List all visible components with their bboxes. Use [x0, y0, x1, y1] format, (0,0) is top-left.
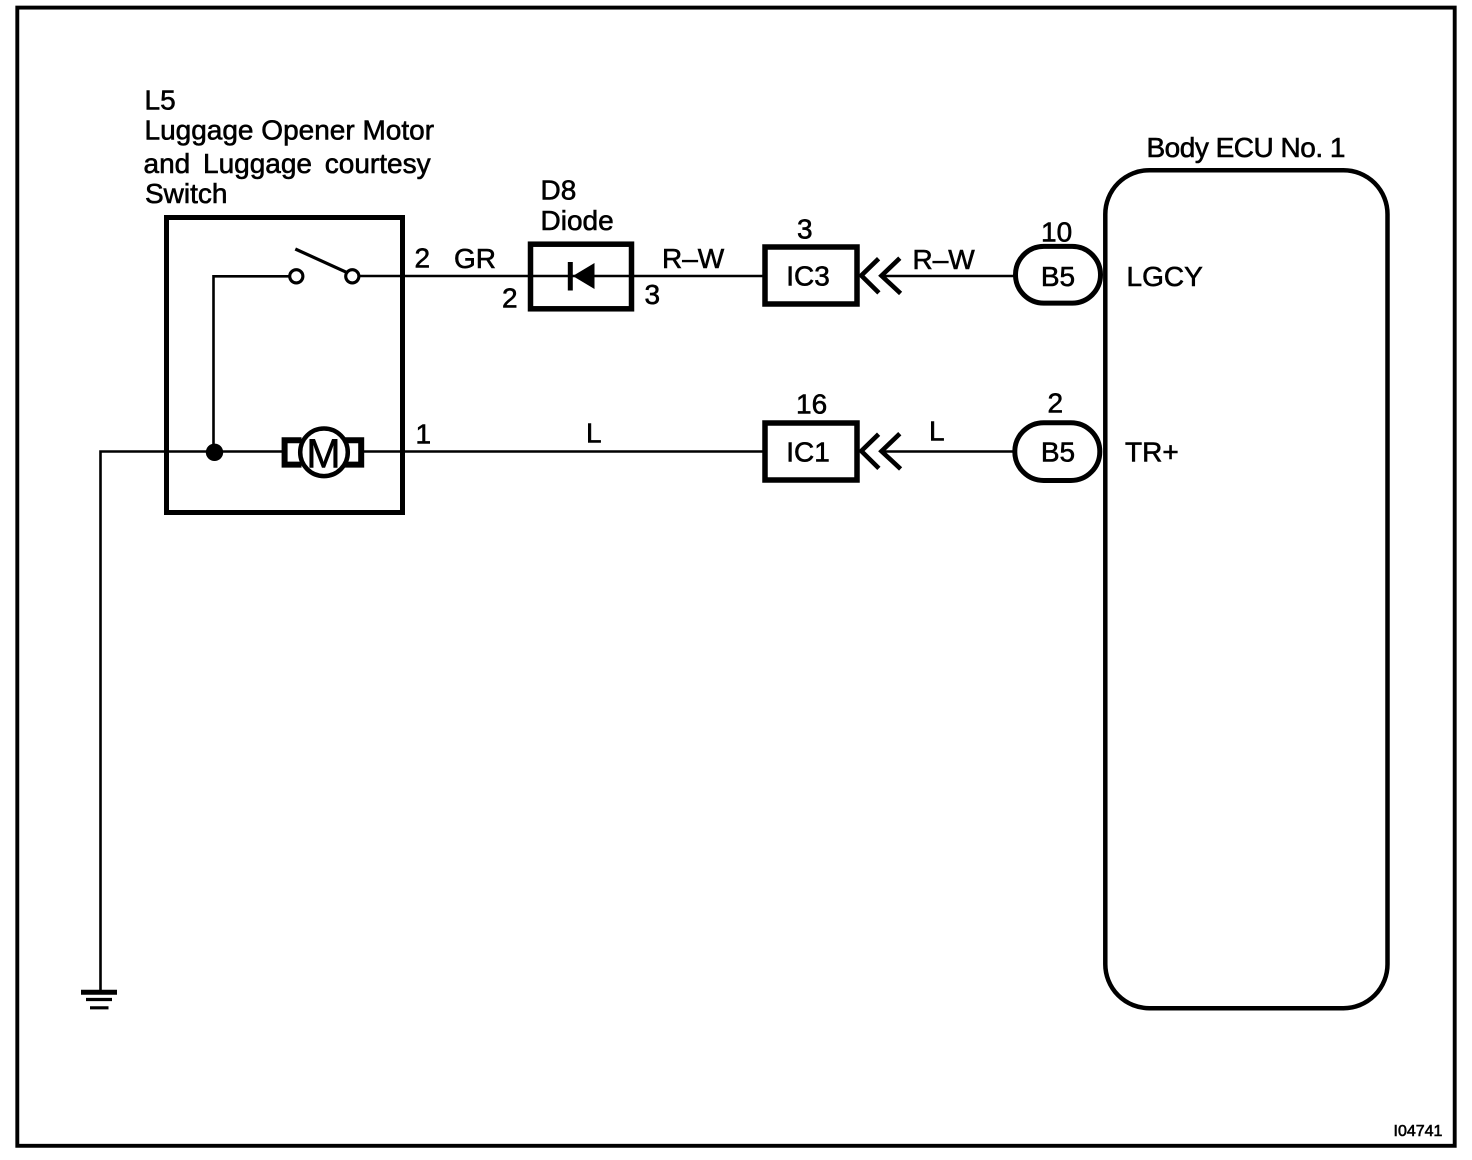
svg-text:B5: B5 — [1041, 437, 1075, 468]
wire: B5 pin 10 to chevrons (R-W) — [884, 275, 1016, 278]
svg-text:L: L — [929, 416, 945, 447]
connector B5 pin 2 (oval) — [1015, 423, 1100, 481]
svg-text:2: 2 — [502, 283, 518, 314]
svg-text:I04741: I04741 — [1394, 1123, 1443, 1140]
wire: B5 pin 2 to chevrons (L) — [884, 450, 1016, 453]
connector junction IC3 — [765, 247, 857, 304]
svg-text:D8: D8 — [541, 174, 577, 205]
svg-text:Luggage Opener Motor: Luggage Opener Motor — [145, 115, 435, 146]
component L5 box: Luggage Opener Motor and Luggage courtesy Switch — [167, 218, 403, 513]
chevron connector marks (lower wire) — [861, 434, 879, 468]
chevron connector marks (upper wire) — [861, 259, 879, 293]
ground symbol — [81, 992, 117, 1008]
diode symbol (cathode bar + triangle) — [568, 262, 573, 291]
svg-text:2: 2 — [1048, 387, 1064, 418]
svg-text:M: M — [306, 430, 340, 476]
connector junction IC1 — [765, 423, 857, 480]
junction node: motor/switch common — [206, 444, 223, 461]
svg-text:IC1: IC1 — [786, 437, 830, 468]
svg-text:1: 1 — [416, 419, 432, 450]
svg-text:B5: B5 — [1041, 261, 1075, 292]
svg-text:R–W: R–W — [662, 243, 725, 274]
svg-text:IC3: IC3 — [786, 261, 830, 292]
connector B5 pin 10 (oval) — [1016, 246, 1101, 303]
svg-text:GR: GR — [454, 243, 496, 274]
svg-text:Body ECU No. 1: Body ECU No. 1 — [1147, 132, 1346, 163]
motor M: circle with brackets — [285, 429, 362, 477]
diode D8 box — [531, 244, 632, 309]
svg-text:R–W: R–W — [913, 244, 976, 275]
svg-text:3: 3 — [797, 214, 813, 245]
svg-text:Switch: Switch — [145, 178, 227, 209]
svg-text:TR+: TR+ — [1125, 437, 1179, 468]
svg-text:L5: L5 — [145, 84, 176, 115]
svg-text:16: 16 — [796, 389, 827, 420]
wire: diode pin 3 to IC3 (R-W) — [634, 275, 765, 278]
svg-text:LGCY: LGCY — [1127, 261, 1204, 292]
svg-text:10: 10 — [1041, 216, 1072, 247]
wire through diode box — [530, 275, 634, 278]
svg-text:3: 3 — [645, 279, 661, 310]
wire: switch pin 2 to diode pin 2 (GR) — [359, 275, 530, 278]
switch: luggage courtesy switch contacts and lever — [290, 249, 359, 283]
wire: switch left contact to junction (inside L5) — [214, 276, 290, 452]
svg-text:2: 2 — [415, 243, 431, 274]
svg-text:Diode: Diode — [541, 205, 614, 236]
svg-text:and Luggage courtesy: and Luggage courtesy — [144, 148, 431, 179]
svg-text:L: L — [586, 418, 602, 449]
wire: bottom net from ground corner through motor to IC1 — [101, 452, 764, 991]
label: component L5 name — [144, 84, 435, 209]
